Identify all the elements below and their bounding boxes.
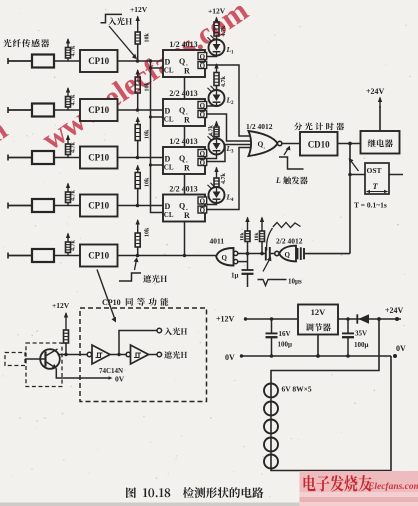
sensor body row 2 (32, 104, 54, 117)
svg-text:16V: 16V (279, 330, 291, 338)
resistor 4.7k LED 3 (216, 122, 218, 128)
pull-up 10k row 4 (137, 166, 139, 173)
wire sensor to R row 2 (54, 109, 80, 111)
wire 4012 out (304, 253, 350, 255)
label 触发器 (283, 176, 308, 184)
svg-text:1μ: 1μ (231, 272, 239, 280)
label 遮光H row5 (143, 275, 167, 283)
svg-text:CD10: CD10 (308, 140, 330, 150)
fiber sensor probe row 3 (7, 155, 9, 161)
watermark www.elecfans.com (0, 0, 254, 157)
svg-text:+12V: +12V (208, 7, 226, 16)
svg-text:4.7k: 4.7k (71, 45, 77, 57)
transistor Q1 (40, 349, 60, 369)
svg-text:CP10: CP10 (88, 201, 109, 211)
resistor collector (64, 330, 69, 343)
resistor 4.7k LED 4 (216, 168, 218, 179)
svg-text:1/2 4012: 1/2 4012 (246, 122, 273, 131)
wire FF2 Q to gate (207, 114, 251, 141)
lamp 444.5 (264, 438, 278, 452)
LED L3 (209, 139, 225, 155)
schmitt buffer B (126, 352, 130, 356)
svg-text:R: R (184, 67, 190, 76)
wire 4011 inputs (238, 253, 266, 255)
svg-text:+24V: +24V (385, 306, 404, 315)
pull-up 10k row 5 (137, 220, 139, 233)
light-in annotation top (101, 14, 123, 22)
CL stub (151, 67, 164, 69)
pullup Rb (261, 218, 263, 232)
pull-up 10k row 3 (137, 118, 139, 125)
svg-text:12V: 12V (311, 307, 327, 317)
lamp 461.5 (264, 455, 278, 469)
svg-text:D: D (165, 155, 171, 164)
CL stub (151, 116, 164, 118)
break squiggle (273, 223, 301, 228)
wire CP10 out row 2 (118, 109, 164, 111)
CP10 box row 3 (80, 147, 118, 169)
capacitor 35V 100u (347, 319, 349, 333)
CL stub (151, 164, 164, 166)
wire CP10 out row 4 (118, 205, 164, 207)
svg-text:4011: 4011 (210, 237, 225, 246)
pullup Ra (247, 218, 249, 232)
svg-text:2/2 4013: 2/2 4013 (169, 89, 197, 98)
wire sensor to R row 1 (54, 60, 80, 62)
flip-flop U3 1/2 4013 (163, 147, 205, 174)
svg-text:R: R (184, 164, 190, 173)
0V rail (240, 355, 391, 357)
svg-text:Q: Q (179, 154, 185, 163)
svg-text:CL: CL (164, 116, 174, 124)
svg-text:0V: 0V (396, 344, 406, 353)
resistor 4.7k LED 2 (216, 64, 218, 73)
svg-text:10k: 10k (254, 232, 260, 242)
svg-text:CL: CL (164, 211, 174, 219)
CP10 box row 1 (80, 50, 118, 72)
svg-text:1/2 4013: 1/2 4013 (169, 40, 197, 49)
svg-text:CP10: CP10 (88, 251, 109, 261)
schmitt buffer A (87, 352, 91, 356)
wire CP10 out row 1 (118, 60, 164, 62)
resistor 4.7k row 1 (67, 39, 69, 48)
svg-text:35V: 35V (355, 330, 367, 338)
svg-text:CL: CL (164, 164, 174, 172)
lamp return to 0V (271, 356, 391, 471)
svg-text:6V 8W×5: 6V 8W×5 (282, 385, 312, 394)
fiber sensor probe row 4 (7, 203, 9, 209)
sensor body row 3 (32, 151, 54, 164)
sensor body row 4 (32, 199, 54, 212)
timer CD10 (300, 132, 338, 156)
fiber sensor probe row 1 (7, 58, 9, 64)
label 遮光H out (164, 351, 187, 359)
arrow to detail (97, 270, 115, 321)
dashed sensor outline (26, 343, 62, 387)
lamp 408.5 (264, 402, 278, 416)
svg-text:+12V: +12V (216, 315, 235, 324)
svg-text:4.7k: 4.7k (71, 142, 77, 154)
coupling capacitor (265, 247, 267, 261)
LED L2 (209, 90, 225, 106)
svg-text:4.7k: 4.7k (221, 76, 227, 88)
svg-text:CP10: CP10 (88, 153, 109, 163)
svg-text:T = 0.1~1s: T = 0.1~1s (354, 201, 387, 210)
svg-text:4.7k: 4.7k (71, 190, 77, 202)
svg-text:4.7k: 4.7k (71, 240, 77, 252)
wire FF1 Q to gate (207, 65, 251, 136)
wire sensor to R row 3 (54, 157, 80, 159)
caption (126, 487, 263, 498)
svg-text:Elecfans.com: Elecfans.com (367, 482, 418, 492)
svg-text:10μs: 10μs (288, 278, 302, 286)
CP10 box row 2 (80, 99, 118, 121)
lamp 426.5 (264, 420, 278, 434)
svg-text:2/2 4013: 2/2 4013 (169, 185, 197, 194)
svg-text:100μ: 100μ (278, 341, 293, 349)
buffer A out (110, 354, 126, 356)
svg-text:+24V: +24V (366, 87, 385, 96)
svg-text:74C14N: 74C14N (99, 367, 123, 375)
svg-text:T: T (373, 181, 379, 191)
lamp 390.5 (264, 384, 278, 398)
svg-text:10k: 10k (145, 177, 151, 187)
LED L1 (209, 40, 225, 56)
wire gate to CD10 (282, 143, 300, 145)
svg-text:Q: Q (179, 57, 185, 66)
svg-text:CP10: CP10 (102, 298, 121, 307)
pull-up 10k row 2 (137, 70, 139, 77)
capacitor 1u (247, 254, 249, 271)
svg-text:2/2 4012: 2/2 4012 (276, 237, 303, 246)
wire CD10 to relay (338, 143, 361, 145)
regulator ground pin (317, 335, 319, 357)
svg-text:100μ: 100μ (354, 341, 369, 349)
reset line R (184, 77, 186, 99)
wire FF3 Q to gate (207, 145, 251, 162)
svg-text:CL: CL (164, 67, 174, 75)
svg-text:Q: Q (179, 202, 185, 211)
svg-text:10k: 10k (145, 82, 151, 92)
wire L3 to FF3 (207, 155, 217, 159)
svg-text:4.7k: 4.7k (209, 125, 215, 137)
svg-text:D: D (165, 58, 171, 67)
diode D1 (338, 318, 401, 320)
resistor 4.7k row 2 (67, 88, 69, 97)
label 调节器 (306, 323, 331, 331)
svg-text:4.7k: 4.7k (221, 173, 227, 185)
dashed function box (80, 308, 207, 402)
label 光纤传感器 (3, 39, 49, 47)
svg-text:CP10: CP10 (88, 105, 109, 115)
red banner watermark (300, 471, 418, 506)
+24 to lamps (271, 319, 379, 384)
row5 wire to 4011 (with R line) (217, 255, 219, 257)
CP10 box row 5 (80, 245, 118, 267)
wire sensor to R row 4 (54, 205, 80, 207)
svg-text:Q: Q (200, 207, 206, 215)
fiber sensor probe row 2 (7, 107, 9, 113)
resistor 4.7k row 4 (67, 184, 69, 193)
long feedback wire (349, 144, 351, 254)
flip-flop U1 1/2 4013 (163, 50, 205, 77)
sensor body row 1 (32, 55, 54, 68)
label 入光H top (108, 17, 132, 25)
banner text (304, 475, 372, 492)
svg-text:4.7k: 4.7k (71, 94, 77, 106)
regulator box (298, 305, 338, 335)
wire collector junction to buffer (58, 354, 88, 356)
svg-text:D: D (165, 202, 171, 211)
svg-text:0V: 0V (115, 375, 125, 384)
svg-text:Q: Q (200, 62, 206, 70)
svg-text:D: D (165, 107, 171, 116)
clock bus (151, 61, 164, 213)
banner text (304, 475, 372, 492)
svg-text:Q: Q (179, 106, 185, 115)
resistor 4.7k row 3 (67, 136, 69, 145)
svg-text:+12V: +12V (52, 301, 70, 310)
sensor body row 5 (32, 249, 54, 262)
wire CP10 out row 3 (118, 157, 164, 159)
label 同等功能 (126, 298, 169, 306)
svg-text:+12V: +12V (130, 5, 148, 14)
+24V terminal (377, 317, 381, 321)
wire sensor to R row 5 (54, 255, 80, 257)
top power rail (244, 318, 298, 320)
svg-text:0V: 0V (225, 353, 235, 362)
label 分光计时器 (294, 122, 344, 130)
one-shot OST (350, 174, 365, 176)
relay box (361, 131, 400, 154)
svg-text:OST: OST (367, 166, 382, 175)
pulse 10us annotation (258, 280, 287, 286)
svg-text:10k: 10k (145, 227, 151, 237)
L trigger annotation (279, 157, 304, 169)
svg-text:Q: Q (200, 150, 206, 158)
fiber sensor probe row 5 (7, 253, 9, 259)
svg-text:Q: Q (200, 102, 206, 110)
LED L4 (209, 187, 225, 203)
wire L2 to FF2 (207, 105, 217, 107)
svg-text:10k: 10k (240, 232, 246, 242)
svg-text:R: R (184, 211, 190, 220)
OST annotation arrow (351, 161, 359, 172)
svg-text:Q: Q (222, 254, 228, 262)
svg-text:Q: Q (200, 53, 206, 61)
shade-H annotation (119, 273, 141, 281)
wire L1 to FF1 (207, 56, 217, 57)
emitter to 0V (56, 368, 110, 378)
wire CP10 out row 5 (118, 255, 218, 257)
svg-text:R: R (184, 116, 190, 125)
wire FF4 Q to gate (207, 148, 251, 210)
svg-text:1/2 4013: 1/2 4013 (169, 137, 197, 146)
CP10 box row 4 (80, 195, 118, 217)
svg-text:CP10: CP10 (88, 56, 109, 66)
svg-text:10k: 10k (145, 129, 151, 139)
capacitor 16V 100u (271, 319, 273, 333)
svg-text:Q: Q (200, 198, 206, 206)
svg-text:Q: Q (200, 111, 206, 119)
resistor 4.7k LED 1 (216, 18, 218, 23)
label 入光H out (164, 328, 187, 336)
svg-text:Q: Q (200, 159, 206, 167)
svg-text:4.7k: 4.7k (221, 25, 227, 37)
resistor 4.7k row 5 (67, 234, 69, 243)
svg-text:10k: 10k (145, 33, 151, 43)
flip-flop U4 2/2 4013 (163, 195, 205, 222)
svg-text:L: L (275, 176, 281, 185)
wire L4 to FF4 (207, 203, 217, 205)
flip-flop U2 2/2 4013 (163, 99, 205, 126)
svg-text:Q: Q (285, 251, 291, 259)
label 继电器 (368, 139, 393, 147)
